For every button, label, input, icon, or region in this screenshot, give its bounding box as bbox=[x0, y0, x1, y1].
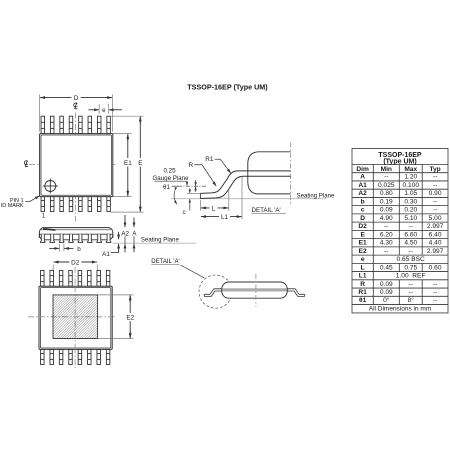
dimension D bbox=[40, 94, 112, 102]
dimension L1 bbox=[201, 213, 242, 221]
svg-text:1.05: 1.05 bbox=[404, 190, 417, 197]
dimension e bbox=[89, 107, 123, 114]
svg-text:R1: R1 bbox=[358, 289, 367, 296]
svg-text:6.40: 6.40 bbox=[429, 231, 442, 238]
bottom view: package body bbox=[39, 286, 112, 349]
side view: pin-1-end chamfer mark bbox=[43, 229, 55, 230]
svg-text:D: D bbox=[360, 215, 365, 222]
svg-text:--: -- bbox=[384, 223, 388, 230]
top view: vertical centerline bbox=[75, 113, 77, 222]
svg-text:e: e bbox=[102, 107, 106, 114]
svg-text:--: -- bbox=[433, 207, 437, 214]
bottom view: vertical centerline bbox=[74, 267, 76, 368]
top view: pins 1-16 (top row) bbox=[41, 116, 110, 133]
svg-text:A2: A2 bbox=[358, 190, 367, 197]
svg-text:0.25: 0.25 bbox=[163, 168, 176, 175]
svg-text:4.90: 4.90 bbox=[380, 215, 393, 222]
dimension L bbox=[201, 204, 228, 212]
svg-text:2.997: 2.997 bbox=[427, 248, 444, 255]
dimension D extension lines bbox=[40, 95, 113, 132]
profile view: package body bbox=[222, 282, 287, 298]
svg-text:--: -- bbox=[433, 289, 437, 296]
callout dashed circle bbox=[199, 275, 232, 308]
detail A: lead thickness c extension line bbox=[187, 193, 200, 195]
svg-text:0.80: 0.80 bbox=[380, 190, 393, 197]
svg-text:e: e bbox=[361, 256, 365, 263]
svg-text:Min: Min bbox=[381, 166, 392, 173]
svg-text:b: b bbox=[361, 198, 365, 205]
top view: pins (bottom row) bbox=[41, 197, 110, 212]
side view: body inner top line bbox=[41, 229, 111, 231]
detail A: label R with leader bbox=[188, 162, 216, 186]
svg-text:R1: R1 bbox=[205, 156, 214, 163]
svg-text:L1: L1 bbox=[221, 214, 229, 221]
svg-text:0.90: 0.90 bbox=[429, 190, 442, 197]
svg-text:0.20: 0.20 bbox=[404, 207, 417, 214]
detail A: label R1 with leader bbox=[205, 156, 231, 173]
svg-text:6.20: 6.20 bbox=[380, 231, 393, 238]
callout leader line bbox=[181, 265, 205, 278]
svg-text:E: E bbox=[138, 160, 142, 167]
svg-text:4.50: 4.50 bbox=[404, 240, 417, 247]
side view: end tabs bbox=[39, 234, 113, 237]
svg-text:A1: A1 bbox=[102, 251, 110, 258]
svg-text:Dim: Dim bbox=[356, 166, 369, 173]
dimension E1 bbox=[123, 134, 133, 196]
svg-text:2.997: 2.997 bbox=[427, 223, 444, 230]
svg-text:0.65 BSC: 0.65 BSC bbox=[397, 256, 425, 263]
label PIN 1 ID MARK bbox=[1, 196, 40, 209]
svg-text:4.30: 4.30 bbox=[380, 240, 393, 247]
svg-text:5.10: 5.10 bbox=[404, 215, 417, 222]
bottom view: exposed pad (hatched) bbox=[53, 295, 98, 339]
svg-text:All Dimensions in mm: All Dimensions in mm bbox=[369, 305, 432, 312]
svg-text:--: -- bbox=[433, 198, 437, 205]
svg-text:0.025: 0.025 bbox=[378, 182, 395, 189]
svg-text:ID MARK: ID MARK bbox=[1, 203, 24, 209]
svg-text:0.09: 0.09 bbox=[380, 207, 393, 214]
table column headers bbox=[356, 166, 440, 173]
svg-text:--: -- bbox=[433, 281, 437, 288]
svg-text:D: D bbox=[74, 95, 79, 102]
profile view: centerline bbox=[255, 274, 257, 307]
dimension A1 bbox=[102, 232, 118, 258]
profile view: right lead bbox=[288, 290, 304, 296]
dimension L extension lines bbox=[200, 188, 228, 211]
svg-text:0.09: 0.09 bbox=[380, 289, 393, 296]
svg-text:(Type UM): (Type UM) bbox=[383, 159, 416, 166]
svg-text:R: R bbox=[188, 162, 193, 169]
dimension table bbox=[352, 149, 448, 313]
seating plane line (side view) bbox=[113, 242, 197, 244]
profile view: lead frame band inside body bbox=[223, 288, 287, 291]
svg-text:0.19: 0.19 bbox=[380, 198, 393, 205]
svg-text:--: -- bbox=[409, 248, 413, 255]
profile view: left lead bbox=[205, 290, 221, 296]
dimension A2 bbox=[121, 215, 129, 252]
detail A: gauge plane dashed line bbox=[178, 185, 208, 187]
svg-text:L: L bbox=[361, 264, 365, 271]
dimension b extension lines bbox=[59, 244, 64, 252]
svg-text:0.100: 0.100 bbox=[402, 182, 419, 189]
dimension A bbox=[132, 218, 137, 253]
svg-text:b: b bbox=[77, 246, 81, 253]
top view: centerline symbol (left) bbox=[24, 161, 28, 167]
svg-text:0.30: 0.30 bbox=[404, 198, 417, 205]
svg-text:6.60: 6.60 bbox=[404, 231, 417, 238]
svg-text:--: -- bbox=[409, 289, 413, 296]
dimension E1/E extension lines bbox=[110, 116, 143, 212]
svg-text:TSSOP-16EP (Type UM): TSSOP-16EP (Type UM) bbox=[187, 83, 268, 92]
svg-text:E2: E2 bbox=[359, 248, 367, 255]
bottom view: horizontal centerline bbox=[28, 316, 115, 318]
detail A: caption DETAIL A bbox=[252, 207, 287, 214]
svg-text:D2: D2 bbox=[71, 259, 80, 266]
detail A: label theta1 bbox=[163, 184, 178, 191]
svg-text:E: E bbox=[360, 231, 365, 238]
svg-text:5.00: 5.00 bbox=[429, 215, 442, 222]
svg-text:0.45: 0.45 bbox=[380, 264, 393, 271]
detail A: seating plane line bbox=[171, 198, 326, 200]
side view: leads bbox=[41, 234, 111, 242]
top view: pin 1 ID mark bbox=[43, 179, 58, 194]
table rows bbox=[358, 174, 443, 305]
svg-text:E1: E1 bbox=[124, 160, 132, 167]
dimension e extension lines bbox=[99, 104, 108, 114]
dimension L1 extension line bbox=[241, 177, 243, 220]
dimension D2 bbox=[54, 258, 97, 266]
dimension b bbox=[49, 246, 81, 253]
svg-text:Seating Plane: Seating Plane bbox=[141, 236, 180, 243]
svg-text:Seating Plane: Seating Plane bbox=[297, 192, 336, 199]
svg-text:0.60: 0.60 bbox=[429, 264, 442, 271]
dimension E2 extension lines bbox=[98, 295, 134, 339]
dimension E2 bbox=[125, 295, 135, 338]
top view: horizontal centerline bbox=[29, 164, 116, 166]
detail A: package body outline bbox=[248, 152, 291, 194]
bottom view: pins (top row) bbox=[41, 270, 110, 286]
svg-text:--: -- bbox=[433, 174, 437, 181]
detail A: body centerline bbox=[290, 143, 292, 205]
svg-text:8°: 8° bbox=[408, 296, 415, 304]
svg-text:A2: A2 bbox=[121, 230, 129, 237]
callout label DETAIL A (small) bbox=[151, 259, 179, 265]
svg-text:θ1: θ1 bbox=[163, 184, 170, 191]
dimension E bbox=[136, 117, 144, 212]
svg-text:L1: L1 bbox=[359, 273, 367, 280]
svg-text:4.40: 4.40 bbox=[429, 240, 442, 247]
svg-text:--: -- bbox=[433, 182, 437, 189]
svg-text:0°: 0° bbox=[383, 296, 390, 304]
top view: centerline symbol (top) bbox=[74, 103, 78, 109]
detail A: label Gauge Plane bbox=[152, 175, 189, 186]
side view: package body bbox=[39, 228, 112, 240]
side view: lead exit line bbox=[40, 233, 113, 235]
detail A: 0.25 measurement arrows bbox=[195, 180, 197, 192]
detail A: theta1 angle arc bbox=[174, 191, 177, 204]
svg-text:--: -- bbox=[409, 281, 413, 288]
svg-text:θ1: θ1 bbox=[359, 297, 367, 304]
top view: package body bbox=[40, 134, 113, 197]
svg-text:--: -- bbox=[384, 174, 388, 181]
svg-text:E1: E1 bbox=[359, 240, 367, 247]
svg-text:Max: Max bbox=[404, 166, 417, 173]
svg-text:--: -- bbox=[433, 297, 437, 304]
svg-text:L: L bbox=[212, 205, 216, 212]
svg-text:D2: D2 bbox=[358, 223, 367, 230]
svg-text:--: -- bbox=[409, 223, 413, 230]
detail A: lead (gull-wing cross-section) bbox=[200, 171, 290, 194]
svg-text:1.00 REF: 1.00 REF bbox=[396, 273, 426, 280]
svg-text:c: c bbox=[182, 209, 185, 216]
svg-text:c: c bbox=[361, 207, 365, 214]
bottom view: pins (bottom row) bbox=[41, 349, 110, 364]
svg-text:A: A bbox=[360, 174, 365, 181]
svg-text:--: -- bbox=[384, 248, 388, 255]
svg-text:1.20: 1.20 bbox=[404, 174, 417, 181]
svg-text:0.75: 0.75 bbox=[404, 264, 417, 271]
svg-text:A1: A1 bbox=[358, 182, 367, 189]
svg-text:0.09: 0.09 bbox=[380, 281, 393, 288]
svg-text:Typ: Typ bbox=[429, 166, 440, 173]
svg-text:R: R bbox=[360, 281, 365, 288]
dimension D2 extension lines bbox=[53, 265, 97, 295]
bottom view: centerlines over body bbox=[39, 286, 112, 349]
profile view: lead frame band bbox=[220, 288, 290, 291]
svg-text:E2: E2 bbox=[126, 315, 134, 322]
dimension c bbox=[182, 188, 189, 216]
svg-text:DETAIL 'A': DETAIL 'A' bbox=[252, 207, 281, 214]
